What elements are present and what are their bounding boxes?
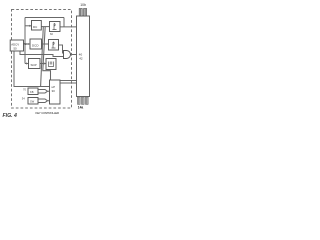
svg-text:KB: KB [30,90,34,94]
icon in S3 [49,62,54,67]
converter U S2 [49,40,59,51]
wire C to S3 [40,63,46,65]
block D keys row 1 [28,88,38,95]
lamp bottom electrode 1 [78,97,81,104]
block B [30,39,42,49]
svg-text:42: 42 [79,57,83,61]
wire vertical V2 down to keys bus [41,27,44,87]
lamp bottom electrode 3 [86,97,89,104]
converter U S1 [50,22,61,32]
block L1 (regulator 50) [10,40,23,51]
wire into block C [25,63,29,65]
wire D to CPU arrow pair [38,90,50,94]
arrowhead into S3 [44,62,46,64]
svg-text:30: 30 [52,89,56,93]
arrowhead into A [29,25,31,27]
wire loop top [25,17,64,19]
block E keys row 2 [28,98,38,105]
gate U3 [64,51,71,59]
block C [29,59,41,69]
wire A to S1 [41,26,49,28]
wire vertical V1 down to CPU top [43,27,51,80]
svg-text:DCD: DCD [32,43,39,47]
wire CPU to lamp lower [60,82,77,84]
wire CPU to lamp upper [60,80,77,82]
converter U S3 [46,59,56,70]
svg-text:KEY CONTROLLER: KEY CONTROLLER [36,111,59,115]
arrowhead into C [26,62,28,64]
block A [32,21,42,31]
lamp top electrode 1 [79,9,82,17]
svg-text:SCP: SCP [31,63,37,67]
arrowhead into B [28,43,30,45]
wire loop riser [63,18,65,27]
wire S1 to lamp [60,26,77,28]
svg-text:50: 50 [14,47,18,51]
wire B to S2 [42,43,49,45]
wire L1 down to CPU [14,51,50,87]
svg-text:10b: 10b [80,3,86,7]
svg-text:14a: 14a [78,105,84,109]
lamp bottom electrode 2 [82,97,85,104]
icon in S1 [53,24,57,30]
icon in S2 [52,42,56,48]
wire E to CPU arrow pair [38,99,50,103]
wire into block A [25,25,32,27]
wire loop left vertical [24,18,26,64]
CPU key controller block [50,80,61,104]
dashed enclosure (keyboard module boundary) [12,10,72,109]
svg-text:SW: SW [30,100,35,104]
wire L1 to gate input 2 [20,51,64,57]
lamp 40 body [77,16,90,97]
wire gate output to lamp [71,54,77,56]
wire into block B [25,43,30,45]
lamp top electrode 2 [84,9,87,17]
svg-text:FIG. 4: FIG. 4 [3,113,18,119]
wire S2 to gate input 1 [59,45,64,53]
